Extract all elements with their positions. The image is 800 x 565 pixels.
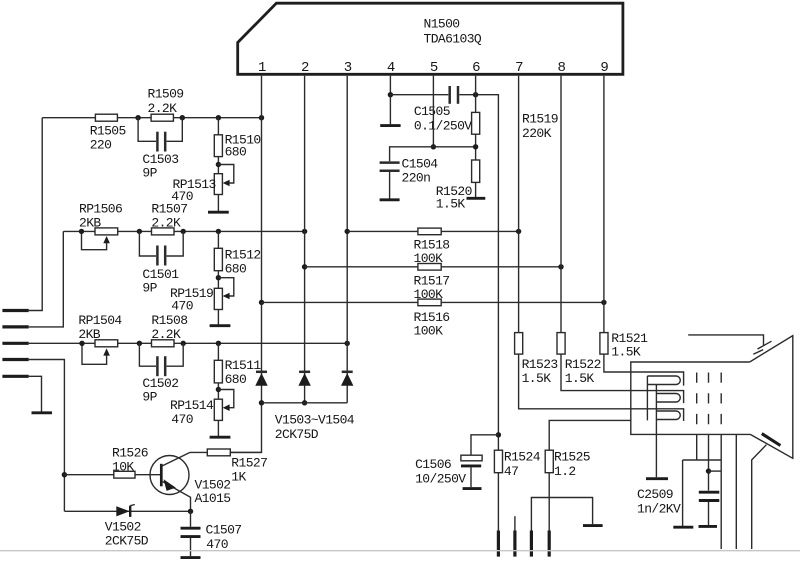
resistor R1524 [494,450,502,473]
node ch1-pin1 [259,115,264,120]
node ch3-c [216,341,221,346]
resistor R1505 [95,114,117,121]
node ch2-b [181,229,186,234]
wire R1516 row [262,301,604,303]
wire bar1 to channel1 [29,118,43,311]
svg-text:6: 6 [472,60,480,76]
wire diode bottom rail [262,402,348,404]
svg-text:RP1514: RP1514 [170,398,214,413]
wire pin4 to C1505 [390,94,448,96]
connector pin d (bottom) [548,531,551,557]
svg-text:RP1504: RP1504 [78,313,122,328]
connector bar 4 (left) [2,358,28,361]
svg-text:1.2: 1.2 [554,464,576,479]
svg-text:10/250V: 10/250V [415,472,466,487]
svg-text:7: 7 [515,60,523,76]
node R1512/RP1519 [216,275,221,280]
ground (RP1514) [210,436,231,439]
svg-text:2.2K: 2.2K [151,215,181,230]
wire bar4 down to transistor base net [29,360,65,512]
node emitter/C1507 [188,509,193,514]
svg-text:A1015: A1015 [195,491,231,506]
connector bar 3 (left) [2,342,28,345]
node grid2 [706,468,711,473]
cathode capsule 3 [656,411,680,420]
svg-text:1.5K: 1.5K [522,371,552,386]
grid dashed line 3 [720,373,722,425]
svg-text:V1502: V1502 [105,519,141,534]
capacitor C1503 leads [138,118,182,142]
svg-text:R1509: R1509 [148,86,184,101]
resistor R1525 [545,450,553,473]
svg-text:2.2K: 2.2K [151,327,181,342]
wire R1510/RP1513 stack [217,118,219,211]
node C1506 tap [496,432,501,437]
capacitor C1506 electrolytic [461,455,482,461]
node ch3-pin3 [345,341,350,346]
wire R1511/RP1514 stack [217,343,219,436]
resistor R1511 [214,360,222,383]
svg-text:C1507: C1507 [206,522,242,537]
wire R1512/RP1519 stack [217,231,219,324]
svg-text:9P: 9P [142,281,157,296]
svg-text:2CK75D: 2CK75D [275,427,319,442]
node ch3-a [137,341,142,346]
node pin2/diode rail [302,400,307,405]
svg-text:470: 470 [206,537,228,552]
wire pin7 to CRT cathode 3 [519,76,684,421]
potentiometer RP1504 [95,340,118,347]
node pin5 [431,144,436,149]
svg-text:R1508: R1508 [151,313,187,328]
cathode rail 2 to ground [655,385,657,478]
svg-text:N1500: N1500 [424,17,460,32]
node ch1-c [216,115,221,120]
wire pin9 to CRT cathode 1 [604,76,684,386]
wire G4 vertical [735,434,737,549]
node R1518/pin7 [516,229,521,234]
ground (C1504) [380,198,400,201]
capacitor (focus) plates [699,491,720,494]
diode V1503-1 [256,371,267,374]
svg-text:680: 680 [225,372,247,387]
resistor R1509 [151,114,173,121]
svg-text:9P: 9P [142,390,157,405]
svg-text:100K: 100K [414,324,444,339]
wire pin3 vertical [346,76,348,403]
resistor R1521 [600,333,608,355]
svg-text:10K: 10K [112,459,134,474]
anode lead [752,445,767,549]
node ch2-rp [79,229,84,234]
wire pin8 to CRT cathode 2 [561,76,684,403]
svg-text:220K: 220K [522,126,552,141]
node pin2/R1517 [302,264,307,269]
svg-text:R1505: R1505 [90,124,126,139]
node pin1/R1516 [259,300,264,305]
svg-text:R1516: R1516 [414,310,450,325]
ground (bar5) [32,411,53,414]
wire C1504 to ground [389,172,391,199]
svg-text:1: 1 [258,60,266,76]
svg-text:1.5K: 1.5K [565,371,595,386]
resistor R1517 [418,264,441,271]
connector pin b (bottom) [514,516,516,530]
svg-text:5: 5 [430,60,438,76]
node ch3-rp [79,341,84,346]
svg-text:C2509: C2509 [637,487,673,502]
capacitor C1501 leads [139,231,183,256]
resistor R1510 [214,135,222,157]
wire grid3 long vertical [720,434,722,549]
wire bar5 to ground [29,376,42,411]
CRT internal coating electrode line [688,335,763,346]
node R1517/pin8 [558,264,563,269]
node pin4 [388,92,393,97]
wire R1527 row [190,451,262,453]
svg-text:9: 9 [600,60,608,76]
svg-text:R1518: R1518 [414,237,450,252]
svg-text:C1506: C1506 [415,457,451,472]
IC U N1500 TDA6103Q outline [238,3,623,74]
ground (RP1519) [210,324,231,327]
resistor R1523 [515,333,523,355]
svg-text:8: 8 [558,60,566,76]
svg-text:470: 470 [171,299,193,314]
cathode capsule 1 [647,376,680,385]
diode V1504-3 [342,371,353,374]
CRT socket box [631,362,751,434]
svg-text:2KB: 2KB [78,327,100,342]
svg-text:220n: 220n [402,170,431,185]
connector pin c (bottom) with ground wire [531,498,592,531]
node ch3-b [181,341,186,346]
wire channel 1 row [42,117,261,119]
svg-text:R1507: R1507 [151,201,187,216]
wire R1526 row [64,474,161,476]
grid dashed line 2 [708,373,710,425]
svg-text:R1527: R1527 [231,456,267,471]
svg-text:2KB: 2KB [79,215,101,230]
potentiometer RP1506 [95,228,118,235]
ground (pin4) [380,124,400,127]
svg-text:220: 220 [90,138,112,153]
resistor R1518 [418,228,441,235]
svg-text:V1503~V1504: V1503~V1504 [275,413,355,428]
svg-text:680: 680 [225,261,247,276]
wire R1525 to heater [549,420,631,530]
ground (C1506) [463,487,482,490]
wire channel 3 row [29,342,348,344]
node pin1/diode rail [259,400,264,405]
ground (RP1513) [208,211,229,214]
wire pin2 vertical [304,76,306,403]
svg-text:C1504: C1504 [402,156,439,171]
transistor V1502 A1015 [150,456,189,495]
coating tick 1 [758,341,772,349]
node R1516/pin9 [601,300,606,305]
resistor R1516 [418,299,441,306]
connector bar 2 (left) [2,325,28,328]
coating tick 2 [753,350,763,355]
scan artifact line [0,550,800,552]
connector pin a (bottom) [497,531,500,557]
svg-text:470: 470 [171,412,193,427]
capacitor C1502 plates [156,356,159,376]
connector bar 5 (left) [2,375,28,378]
wire to ground A [682,460,684,526]
svg-text:1K: 1K [231,469,246,484]
svg-text:3: 3 [344,60,352,76]
node ch2-pin2 [302,229,307,234]
svg-text:2.2K: 2.2K [148,101,178,116]
node pin3/R1518 [345,229,350,234]
connector bar 1 (left) [2,309,28,312]
ground (pin c) [583,524,603,527]
anode tick [762,434,781,446]
diode V1503-2 [299,371,310,374]
svg-text:1.5K: 1.5K [436,196,466,211]
svg-text:4: 4 [387,60,395,76]
node ch1-a [135,115,140,120]
svg-text:TDA6103Q: TDA6103Q [424,32,482,47]
svg-text:R1512: R1512 [225,247,261,262]
svg-text:2CK75D: 2CK75D [105,533,149,548]
capacitor C1507 [190,511,192,527]
capacitor C1504 plates [380,161,400,164]
wire channel 2 row [63,230,304,232]
wire pin5 vertical [432,76,434,147]
potentiometer RP1514 [214,399,222,420]
ground (C1507) [181,556,201,559]
diode V1502 2CK75D [116,506,129,516]
wire emitter/diode row [64,510,190,512]
wire node branch right [709,470,722,472]
svg-text:R1519: R1519 [522,112,558,127]
capacitor C1501 plates [156,246,159,266]
resistor R1527 [207,449,230,456]
svg-text:680: 680 [225,145,247,160]
capacitor C1503 plates [156,132,159,152]
capacitor C1502 leads [139,343,183,366]
svg-text:9P: 9P [142,166,157,181]
wire C1506 branch [471,435,498,455]
node ch2-a [137,229,142,234]
wire pin4 to ground [389,76,391,125]
wire C1504 row [390,147,476,161]
wire grid1 below box [696,434,698,460]
capacitor C1505 plates [448,86,451,104]
wire pin6 vertical [475,76,477,197]
resistor R1512 [214,248,222,270]
node ch1-b [180,115,185,120]
node ch2-c [216,229,221,234]
wire C1505 to pin6 and down to C1506 node [459,95,498,531]
ground (C2509 net) [646,477,668,480]
node R1510/RP1513 [216,162,221,167]
resistor R1526 [114,471,135,478]
svg-text:1.5K: 1.5K [611,344,641,359]
resistor R1522 [557,333,565,355]
svg-text:RP1506: RP1506 [79,201,122,216]
svg-text:1n/2KV: 1n/2KV [637,501,681,516]
resistor R1519 [472,112,480,134]
resistor R1507 [152,228,175,235]
node base net tap [62,472,67,477]
potentiometer RP1519 [214,288,222,309]
node R1511/RP1514 [216,387,221,392]
wire pin1 vertical [230,76,262,453]
wire R1517 row [305,266,561,268]
node pin6 top [473,92,478,97]
ground B [699,525,718,528]
svg-text:C1505: C1505 [414,104,450,119]
svg-text:R1524: R1524 [504,450,541,465]
grid dashed line 1 [696,373,698,425]
wire bar2 to channel2 [29,231,64,327]
resistor R1508 [152,340,175,347]
svg-text:0.1/250V: 0.1/250V [414,119,472,134]
potentiometer RP1513 [214,174,222,195]
ground A [673,526,693,529]
resistor R1520 [472,160,480,182]
svg-text:2: 2 [301,60,309,76]
cathode capsule 2 [656,394,680,403]
ground (R1520) [467,197,486,200]
cathode rail 1 [646,376,648,420]
wire R1518 row [347,230,518,232]
CRT funnel [750,336,793,459]
svg-text:R1511: R1511 [225,358,262,373]
wire grid2 below box to capacitor [708,434,710,490]
svg-text:47: 47 [504,464,518,479]
wire grid common row [683,459,722,461]
svg-text:R1525: R1525 [554,450,590,465]
node pin6 mid [473,144,478,149]
